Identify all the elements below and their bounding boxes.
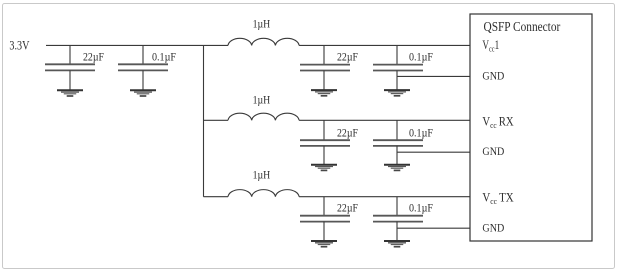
ground (C4)	[384, 90, 410, 96]
svg-text:0.1µF: 0.1µF	[152, 52, 176, 64]
svg-text:1µH: 1µH	[253, 95, 271, 107]
capacitor C5 22uF	[300, 120, 350, 164]
wire C6 to GND pin 2	[397, 151, 470, 153]
svg-text:1µH: 1µH	[253, 170, 271, 182]
ground (C3)	[311, 90, 337, 96]
svg-text:Vcc RX: Vcc RX	[482, 114, 513, 130]
capacitor C1 22uF	[45, 45, 95, 90]
svg-text:22µF: 22µF	[337, 203, 358, 215]
ground (C2)	[130, 90, 156, 96]
ground (C5)	[311, 165, 337, 171]
wire C8 to GND pin 3	[397, 227, 470, 229]
ground (C6)	[384, 165, 410, 171]
wire L2 output to VccRX pin	[299, 119, 470, 121]
wire L3 output to VccTX pin	[299, 196, 470, 198]
wire L1 output to Vcc1 pin	[299, 44, 470, 46]
wire C4 to GND pin 1	[397, 75, 470, 77]
capacitor C3 22uF	[300, 45, 350, 90]
connector J1 QSFP box	[470, 14, 592, 241]
wire bus for branch feeds	[203, 45, 205, 196]
svg-text:GND: GND	[482, 144, 504, 158]
ground (C1)	[57, 90, 83, 96]
svg-text:GND: GND	[482, 68, 504, 82]
svg-text:0.1µF: 0.1µF	[409, 52, 433, 64]
svg-text:GND: GND	[482, 220, 504, 234]
wire VccRX branch	[204, 119, 229, 121]
svg-text:0.1µF: 0.1µF	[409, 128, 433, 140]
svg-text:22µF: 22µF	[83, 52, 104, 64]
svg-text:0.1µF: 0.1µF	[409, 203, 433, 215]
capacitor C7 22uF	[300, 197, 350, 241]
inductor L3 1uH	[228, 190, 299, 197]
svg-text:Vcc TX: Vcc TX	[482, 190, 513, 206]
svg-text:22µF: 22µF	[337, 52, 358, 64]
ground (C8)	[384, 241, 410, 247]
svg-text:1µH: 1µH	[253, 19, 271, 31]
ground (C7)	[311, 241, 337, 247]
svg-text:Vcc1: Vcc1	[482, 38, 499, 54]
inductor L1 1uH	[228, 38, 299, 45]
inductor L2 1uH	[228, 113, 299, 120]
svg-text:QSFP Connector: QSFP Connector	[484, 19, 561, 34]
svg-text:3.3V: 3.3V	[9, 38, 29, 52]
wire VccTX branch	[204, 196, 229, 198]
capacitor C4 0.1uF	[373, 45, 423, 90]
svg-text:22µF: 22µF	[337, 128, 358, 140]
capacitor C8 0.1uF	[373, 197, 423, 241]
capacitor C2 0.1uF	[118, 45, 168, 90]
capacitor C6 0.1uF	[373, 120, 423, 164]
wire 3.3V rail	[46, 44, 228, 46]
